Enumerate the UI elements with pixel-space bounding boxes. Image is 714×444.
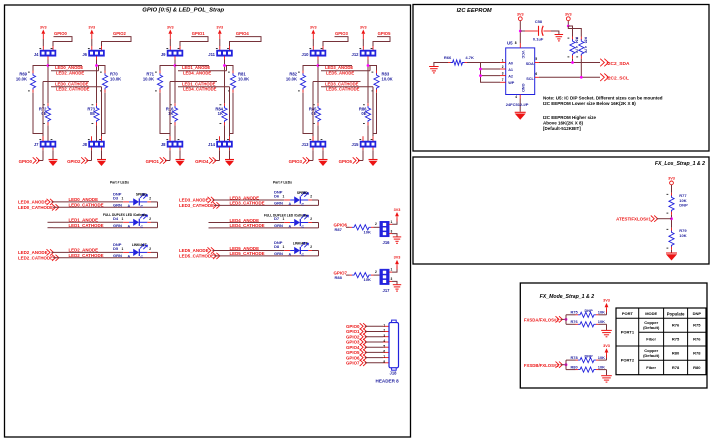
svg-text:1: 1 — [383, 324, 385, 328]
svg-text:GPIO1: GPIO1 — [192, 31, 205, 36]
svg-text:A: A — [289, 253, 292, 257]
svg-text:SPEED: SPEED — [136, 193, 148, 197]
svg-text:J16: J16 — [383, 240, 391, 245]
svg-text:2: 2 — [383, 329, 385, 333]
svg-text:4.7K: 4.7K — [575, 46, 579, 54]
svg-text:C: C — [302, 253, 305, 257]
svg-text:A2: A2 — [508, 75, 513, 79]
svg-text:FX_Los_Strap_1 & 2: FX_Los_Strap_1 & 2 — [655, 161, 705, 167]
svg-text:R76: R76 — [571, 319, 579, 324]
svg-text:LED0_ANODE: LED0_ANODE — [55, 65, 83, 70]
svg-text:LED4_CATHODE: LED4_CATHODE — [183, 87, 217, 92]
svg-text:2: 2 — [149, 217, 151, 221]
svg-text:10K: 10K — [364, 277, 371, 282]
svg-text:3V3: 3V3 — [360, 25, 367, 29]
svg-text:3V3: 3V3 — [167, 25, 174, 29]
svg-text:J8: J8 — [82, 142, 87, 147]
svg-text:FULL DUPLEX LED /Cathode: FULL DUPLEX LED /Cathode — [264, 213, 308, 217]
svg-text:LED4_ANODE: LED4_ANODE — [230, 218, 260, 223]
svg-text:J9: J9 — [161, 52, 166, 57]
svg-text:3V3: 3V3 — [565, 12, 572, 16]
svg-text:LED2_CATHODE: LED2_CATHODE — [18, 255, 53, 260]
svg-text:J14: J14 — [208, 142, 216, 147]
svg-text:FULL DUPLEX LED /Cathode: FULL DUPLEX LED /Cathode — [103, 213, 147, 217]
svg-text:LED2_CATHODE: LED2_CATHODE — [56, 87, 90, 92]
svg-text:3V3: 3V3 — [88, 25, 95, 29]
svg-text:A: A — [128, 204, 131, 208]
svg-text:GRN: GRN — [113, 223, 122, 228]
svg-text:DNP: DNP — [585, 353, 594, 358]
svg-text:I2C2_SDA: I2C2_SDA — [607, 61, 630, 67]
svg-text:10.0K: 10.0K — [16, 76, 27, 81]
svg-text:LED4_CATHODE: LED4_CATHODE — [230, 223, 265, 228]
svg-text:6: 6 — [535, 72, 537, 76]
svg-text:2: 2 — [502, 65, 504, 69]
svg-text:R88: R88 — [335, 275, 343, 280]
svg-text:LED3_ANODE: LED3_ANODE — [325, 65, 353, 70]
svg-text:LED5_ANODE: LED5_ANODE — [179, 248, 209, 253]
svg-text:LINK/ACT: LINK/ACT — [132, 243, 147, 247]
svg-text:GRN: GRN — [113, 203, 122, 208]
svg-text:U5: U5 — [507, 41, 513, 46]
svg-text:1: 1 — [122, 217, 124, 221]
svg-text:0E: 0E — [90, 111, 95, 116]
svg-text:D5: D5 — [113, 246, 119, 251]
svg-text:10K: 10K — [679, 233, 686, 238]
svg-text:7: 7 — [383, 355, 385, 359]
svg-text:LED2_ANODE: LED2_ANODE — [69, 248, 99, 253]
svg-text:SCL: SCL — [526, 77, 534, 81]
svg-text:J4: J4 — [34, 52, 39, 57]
svg-text:WP: WP — [508, 81, 515, 85]
svg-text:1: 1 — [283, 245, 285, 249]
svg-text:3V3: 3V3 — [40, 25, 47, 29]
svg-text:0E: 0E — [361, 111, 366, 116]
svg-text:LED4_ANODE: LED4_ANODE — [183, 71, 211, 76]
svg-text:R78: R78 — [571, 355, 579, 360]
svg-text:Part # LEDs: Part # LEDs — [273, 180, 292, 184]
svg-text:8: 8 — [383, 360, 385, 364]
svg-text:10K: 10K — [598, 310, 605, 315]
svg-text:GRN: GRN — [274, 251, 283, 256]
svg-text:GPIO3: GPIO3 — [289, 159, 303, 164]
svg-text:GPIO2: GPIO2 — [346, 334, 360, 339]
svg-text:R76: R76 — [672, 323, 680, 328]
svg-text:GPIO0: GPIO0 — [19, 159, 33, 164]
svg-text:3V3: 3V3 — [517, 12, 524, 16]
svg-text:1: 1 — [283, 195, 285, 199]
svg-text:GRN: GRN — [274, 223, 283, 228]
svg-text:10K: 10K — [598, 319, 605, 324]
svg-text:C: C — [141, 255, 144, 259]
svg-text:GRN: GRN — [113, 253, 122, 258]
svg-text:R80: R80 — [693, 365, 701, 370]
svg-text:5: 5 — [383, 344, 385, 348]
svg-text:(Default): (Default) — [643, 353, 660, 358]
svg-text:I2C2_SCL: I2C2_SCL — [607, 76, 629, 82]
svg-text:FX_Mode_Strap_1 & 2: FX_Mode_Strap_1 & 2 — [540, 294, 595, 300]
svg-text:R66: R66 — [444, 55, 452, 60]
svg-text:1: 1 — [122, 247, 124, 251]
svg-text:LED0_ANODE: LED0_ANODE — [69, 197, 99, 202]
svg-text:LED2_CATHODE: LED2_CATHODE — [69, 253, 104, 258]
svg-text:J11: J11 — [208, 52, 215, 57]
svg-text:1: 1 — [391, 268, 393, 272]
svg-text:1: 1 — [502, 58, 504, 62]
svg-text:C58: C58 — [535, 19, 543, 24]
svg-text:Populate: Populate — [667, 312, 685, 317]
svg-text:GPIO5: GPIO5 — [339, 159, 353, 164]
svg-text:HEADER 8: HEADER 8 — [376, 379, 400, 384]
svg-text:LED0_CATHODE: LED0_CATHODE — [18, 205, 53, 210]
svg-text:R80: R80 — [571, 364, 578, 369]
svg-text:1K: 1K — [168, 111, 173, 116]
svg-text:3V3: 3V3 — [394, 208, 401, 212]
svg-text:3: 3 — [391, 277, 393, 281]
svg-text:PORT2: PORT2 — [621, 358, 635, 363]
svg-text:10K: 10K — [598, 364, 605, 369]
svg-text:R75: R75 — [672, 337, 680, 342]
svg-text:1: 1 — [283, 217, 285, 221]
svg-text:4: 4 — [515, 95, 517, 99]
svg-text:2: 2 — [149, 197, 151, 201]
svg-text:2: 2 — [375, 270, 377, 274]
svg-text:DNP: DNP — [679, 203, 688, 208]
svg-text:LED3_CATHODE: LED3_CATHODE — [230, 201, 265, 206]
svg-text:3: 3 — [383, 334, 385, 338]
svg-text:5: 5 — [535, 57, 537, 61]
svg-text:D8: D8 — [274, 244, 280, 249]
svg-text:D6: D6 — [274, 194, 280, 199]
svg-text:J18: J18 — [390, 371, 398, 376]
svg-text:I2C EEPROM Higher size: I2C EEPROM Higher size — [543, 115, 597, 120]
svg-text:Fiber: Fiber — [646, 337, 656, 342]
svg-text:3: 3 — [391, 229, 393, 233]
svg-text:A: A — [289, 225, 292, 229]
svg-text:J12: J12 — [352, 52, 360, 57]
svg-text:R76: R76 — [693, 337, 701, 342]
svg-text:FXSDA/FXLOS#1: FXSDA/FXLOS#1 — [524, 318, 559, 323]
svg-text:R87: R87 — [335, 227, 343, 232]
svg-text:LED5_CATHODE: LED5_CATHODE — [326, 87, 360, 92]
svg-text:GND: GND — [521, 84, 525, 93]
svg-text:8: 8 — [515, 41, 517, 45]
svg-text:R64: R64 — [575, 37, 579, 43]
svg-text:10K: 10K — [364, 229, 371, 234]
svg-text:3: 3 — [502, 72, 504, 76]
svg-text:GRN: GRN — [274, 201, 283, 206]
svg-text:GPIO3: GPIO3 — [335, 31, 348, 36]
svg-text:PORT: PORT — [622, 311, 634, 316]
svg-text:(Default): (Default) — [643, 325, 660, 330]
svg-text:J10: J10 — [302, 52, 310, 57]
svg-text:[Default-512KBIT]: [Default-512KBIT] — [543, 126, 581, 131]
svg-text:GPIO2: GPIO2 — [67, 159, 81, 164]
svg-text:A: A — [128, 255, 131, 259]
svg-text:GPIO2: GPIO2 — [113, 31, 126, 36]
svg-text:0.1uF: 0.1uF — [533, 36, 544, 41]
svg-text:2: 2 — [310, 195, 312, 199]
svg-text:Part # LEDs: Part # LEDs — [110, 180, 129, 184]
svg-text:3V3: 3V3 — [668, 177, 675, 181]
svg-text:LED5_ANODE: LED5_ANODE — [326, 71, 354, 76]
svg-text:0E: 0E — [41, 111, 46, 116]
svg-text:10.0K: 10.0K — [382, 76, 393, 81]
svg-text:I2C EEPROM Lower size Below 1: I2C EEPROM Lower size Below 16K(2K X 8) — [543, 101, 636, 106]
svg-text:LED0_CATHODE: LED0_CATHODE — [69, 203, 104, 208]
svg-text:LED5_CATHODE: LED5_CATHODE — [179, 254, 214, 259]
svg-text:R78: R78 — [672, 365, 680, 370]
svg-text:4: 4 — [383, 339, 385, 343]
svg-text:LED3_ANODE: LED3_ANODE — [230, 195, 260, 200]
svg-text:DNP: DNP — [585, 308, 594, 313]
svg-text:10.0K: 10.0K — [238, 76, 249, 81]
svg-text:GPIO1: GPIO1 — [146, 159, 160, 164]
svg-text:3V3: 3V3 — [603, 344, 610, 348]
svg-text:10.0K: 10.0K — [286, 76, 297, 81]
svg-text:DNP: DNP — [693, 311, 702, 316]
svg-text:R78: R78 — [693, 351, 701, 356]
svg-text:2: 2 — [149, 247, 151, 251]
svg-text:R80: R80 — [672, 351, 680, 356]
svg-text:3V3: 3V3 — [603, 299, 610, 303]
svg-text:Note: U5: IC DIP Socket. Diffe: Note: U5: IC DIP Socket. Different sizes… — [543, 96, 663, 101]
svg-text:2: 2 — [375, 222, 377, 226]
svg-text:R65: R65 — [583, 37, 587, 43]
svg-text:3V3: 3V3 — [310, 25, 317, 29]
svg-text:SPEED: SPEED — [297, 191, 309, 195]
svg-text:24FC512-I/P: 24FC512-I/P — [506, 102, 529, 107]
svg-text:R75: R75 — [571, 310, 579, 315]
svg-text:LED1_CATHODE: LED1_CATHODE — [69, 223, 104, 228]
svg-text:FXSDB/FXLOS#2: FXSDB/FXLOS#2 — [524, 363, 559, 368]
svg-text:GPIO4: GPIO4 — [195, 159, 209, 164]
svg-text:LED1_ANODE: LED1_ANODE — [182, 65, 210, 70]
svg-text:R75: R75 — [693, 323, 701, 328]
svg-text:LED2_ANODE: LED2_ANODE — [18, 250, 48, 255]
svg-text:2: 2 — [310, 217, 312, 221]
svg-text:VCC: VCC — [521, 51, 525, 59]
svg-text:A: A — [128, 225, 131, 229]
svg-text:J6: J6 — [82, 52, 87, 57]
svg-text:A1: A1 — [508, 68, 513, 72]
svg-text:Fiber: Fiber — [646, 365, 656, 370]
svg-text:SDA: SDA — [526, 62, 534, 66]
svg-text:GPIO0: GPIO0 — [54, 31, 67, 36]
svg-text:4.7K: 4.7K — [465, 55, 474, 60]
svg-text:C: C — [302, 203, 305, 207]
svg-text:LED1_ANODE: LED1_ANODE — [69, 218, 99, 223]
svg-text:LINK/ACT: LINK/ACT — [293, 241, 308, 245]
svg-text:6: 6 — [383, 350, 385, 354]
svg-text:LED2_ANODE: LED2_ANODE — [56, 71, 84, 76]
svg-text:LED3_CATHODE: LED3_CATHODE — [179, 203, 214, 208]
svg-text:MODE: MODE — [645, 311, 657, 316]
svg-text:3V3: 3V3 — [216, 25, 223, 29]
svg-text:J17: J17 — [383, 288, 391, 293]
svg-text:2: 2 — [310, 245, 312, 249]
svg-text:GPIO4: GPIO4 — [236, 31, 249, 36]
svg-text:C: C — [141, 205, 144, 209]
svg-text:10.0K: 10.0K — [110, 76, 121, 81]
svg-text:J15: J15 — [352, 142, 360, 147]
svg-text:7: 7 — [502, 78, 504, 82]
svg-text:1: 1 — [122, 197, 124, 201]
svg-text:0E: 0E — [311, 111, 316, 116]
svg-text:GPIO [0:5] & LED_POL_Strap: GPIO [0:5] & LED_POL_Strap — [142, 8, 224, 14]
svg-text:1: 1 — [391, 220, 393, 224]
svg-text:C: C — [302, 225, 305, 229]
svg-text:LED3_ANODE: LED3_ANODE — [179, 198, 209, 203]
svg-text:10K: 10K — [598, 355, 605, 360]
svg-text:LED5_ANODE: LED5_ANODE — [230, 246, 260, 251]
svg-text:4.7K: 4.7K — [583, 46, 587, 54]
svg-text:GPIO7: GPIO7 — [346, 361, 360, 366]
svg-text:D3: D3 — [113, 196, 119, 201]
svg-text:1K: 1K — [218, 111, 223, 116]
svg-text:LED5_CATHODE: LED5_CATHODE — [230, 251, 265, 256]
svg-text:I2C EEPROM: I2C EEPROM — [457, 8, 492, 14]
svg-text:3V3: 3V3 — [394, 256, 401, 260]
svg-text:J8: J8 — [161, 142, 166, 147]
svg-text:C: C — [141, 225, 144, 229]
svg-text:Above 16K(2K X 8): Above 16K(2K X 8) — [543, 121, 584, 126]
svg-text:PORT1: PORT1 — [621, 330, 635, 335]
svg-text:10.0K: 10.0K — [143, 76, 154, 81]
svg-text:ATESTIFXLOS#1: ATESTIFXLOS#1 — [616, 217, 651, 222]
svg-text:A: A — [289, 202, 292, 206]
svg-text:J13: J13 — [302, 142, 310, 147]
svg-text:LED0_ANODE: LED0_ANODE — [18, 200, 48, 205]
svg-text:J7: J7 — [34, 142, 39, 147]
svg-text:A0: A0 — [508, 61, 513, 65]
svg-text:GPIO5: GPIO5 — [378, 31, 391, 36]
